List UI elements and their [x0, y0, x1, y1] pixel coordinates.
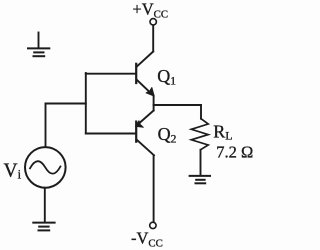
wire Vcc vertical: [152, 25, 154, 51]
wire Q2 collector diagonal: [137, 140, 154, 156]
wire Vi bottom lead: [44, 188, 46, 222]
svg-text:7.2 Ω: 7.2 Ω: [216, 142, 253, 161]
wire Vi riser: [45, 104, 47, 147]
wire RL top lead: [200, 105, 202, 119]
wire Q1 base horizontal: [86, 73, 135, 75]
arrowhead Q2 emitter (PNP, pointing at base): [135, 121, 143, 128]
node +Vcc terminal circle: [150, 19, 156, 25]
ground under Vi: [33, 222, 54, 224]
ground under RL: [190, 175, 210, 177]
wire output horizontal to RL: [154, 104, 201, 106]
arrowhead Q1 emitter (NPN, pointing out): [146, 87, 154, 96]
wire Q2 base horizontal: [86, 133, 135, 135]
source Vi sine wave: [30, 161, 60, 173]
wire Q2 collector vertical: [153, 155, 155, 222]
node -Vcc terminal circle: [150, 222, 156, 228]
ground (floating, top-left): [28, 33, 49, 57]
wire base bracket vertical: [85, 73, 87, 134]
wire output node vertical: [153, 96, 155, 111]
wire RL bottom lead: [200, 150, 202, 175]
transistor Q1 base bar: [135, 64, 137, 83]
wire Q1 collector diagonal: [137, 52, 153, 67]
wire input horizontal: [46, 103, 86, 105]
wire Q2 emitter diagonal: [140, 111, 154, 123]
transistor Q2 base bar: [135, 122, 137, 142]
source Vi circle: [25, 147, 66, 188]
wire Q1 emitter diagonal: [137, 80, 152, 94]
resistor RL zigzag: [191, 119, 208, 150]
